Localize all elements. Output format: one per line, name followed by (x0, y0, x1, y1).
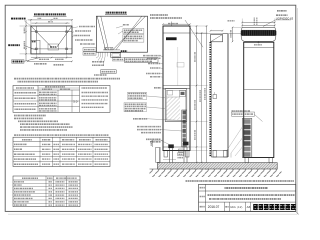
exhaust cover louver band (dark) (241, 30, 276, 35)
drawing border frame (5, 5, 297, 214)
anchor plan exhaust spread diagonals (24, 26, 72, 61)
svg-text:5.0: 5.0 (73, 100, 78, 104)
front view top dimension (162, 23, 191, 26)
anchor plan bottom dimension lines (27, 54, 73, 65)
side view cover dimension 61.5 (210, 21, 235, 32)
title block row separators (bottom row cells) (225, 202, 251, 211)
title block frame (199, 184, 296, 211)
asterisk notes below table 1 (14, 116, 73, 130)
svg-text:UOP-E50C-63: UOP-E50C-63 (276, 16, 294, 20)
piping table heading line (14, 134, 109, 136)
front view unit body outline (163, 26, 190, 151)
top-view diagram title (上方からの配置図) (105, 13, 127, 15)
exhaust outlet dark label (121, 50, 127, 52)
label exhaust position A (11, 19, 31, 26)
side view unit profile (211, 34, 228, 157)
front view connection stack boxes (182, 110, 187, 147)
scale label cell (225, 206, 228, 208)
table 1: anchor bolt selection table (13, 86, 110, 113)
right unit pipe connection stack (242, 119, 252, 158)
drawing title text (標準施工図) (225, 187, 269, 189)
anchor plan upper dimension lines (28, 18, 73, 26)
wall hatch strip (210, 42, 211, 157)
table 2: connection and standard piping size table (13, 137, 110, 166)
anchor bolt spec boxed labels (83, 48, 96, 55)
front view bottom piping cluster (151, 140, 189, 162)
corner label M8 bolt (277, 10, 287, 12)
ground hatch band (150, 169, 282, 177)
front view legs (163, 151, 190, 158)
date cell 2016.07 (208, 205, 220, 209)
circulation adapter boxed label (232, 111, 263, 122)
right unit body outline (244, 42, 274, 157)
svg-text:A3: A3 (247, 205, 251, 209)
pipe stack leader lines (227, 127, 242, 158)
svg-text:2016.07: 2016.07 (208, 205, 220, 209)
label exhaust position C (12, 60, 24, 63)
maintenance space note line (186, 180, 295, 182)
corner label UOP-E50C-63 (263, 16, 294, 26)
table 3: hole/connection diameter table (13, 176, 80, 207)
installation note lines above table 1 (14, 79, 120, 82)
title block field labels (200, 188, 205, 207)
front view mid seams (163, 86, 190, 89)
anchor plan right side labels (72, 27, 95, 45)
exhaust outlet marks at apex (105, 47, 113, 50)
exhaust-center link line across views (196, 33, 241, 35)
label exhaust position B (8, 44, 20, 46)
top view bottom dimension box (101, 70, 117, 74)
front view rating plate (dark) (166, 37, 184, 85)
unit outline in top view (below frame) (111, 53, 121, 58)
scale value 1/10 (1:2) (230, 205, 244, 209)
exhaust cover bottom lip (241, 36, 276, 45)
top-view diagram frame (96, 16, 147, 52)
model number lines (208, 195, 295, 199)
top-view right-side labels (116, 25, 144, 42)
cover left dimension (231, 27, 242, 43)
front view service panel opening (165, 89, 187, 122)
right unit legs (245, 158, 273, 163)
cover top dimension (241, 18, 275, 28)
anchor-bolt diagram title (アンカーボルトの位置図) (34, 14, 67, 16)
svg-text:1/10•〈1:2〉: 1/10•〈1:2〉 (230, 205, 244, 209)
page corner fold mark (296, 211, 299, 214)
top view connection leader drops (96, 52, 108, 65)
concrete base slab with hatch (158, 163, 278, 169)
side view mounting bracket mark (213, 92, 217, 99)
front view bottom seam (163, 146, 190, 148)
anchor plan left dimension chain (20, 20, 31, 61)
company logo text (リンナイ株式会社) (253, 205, 296, 208)
anchor bolt spec label (SUS M10x50) (124, 58, 158, 63)
top view port labels (92, 58, 124, 75)
anchor plan outline rect (31, 26, 72, 54)
exhaust spread V lines (97, 16, 145, 50)
front view right dimension chains (190, 25, 208, 170)
front view top note (exhaust center position) (150, 15, 203, 47)
side view exhaust cover box (211, 35, 223, 42)
corner label exhaust cover (276, 14, 288, 16)
sheet size A3 (247, 205, 251, 209)
side view legs (211, 151, 228, 158)
front view left callout labels (124, 56, 183, 145)
anchor plan inner lines (31, 26, 72, 54)
anchor bolt symbols (4x) (35, 31, 67, 50)
exhaust cover body (241, 27, 276, 30)
